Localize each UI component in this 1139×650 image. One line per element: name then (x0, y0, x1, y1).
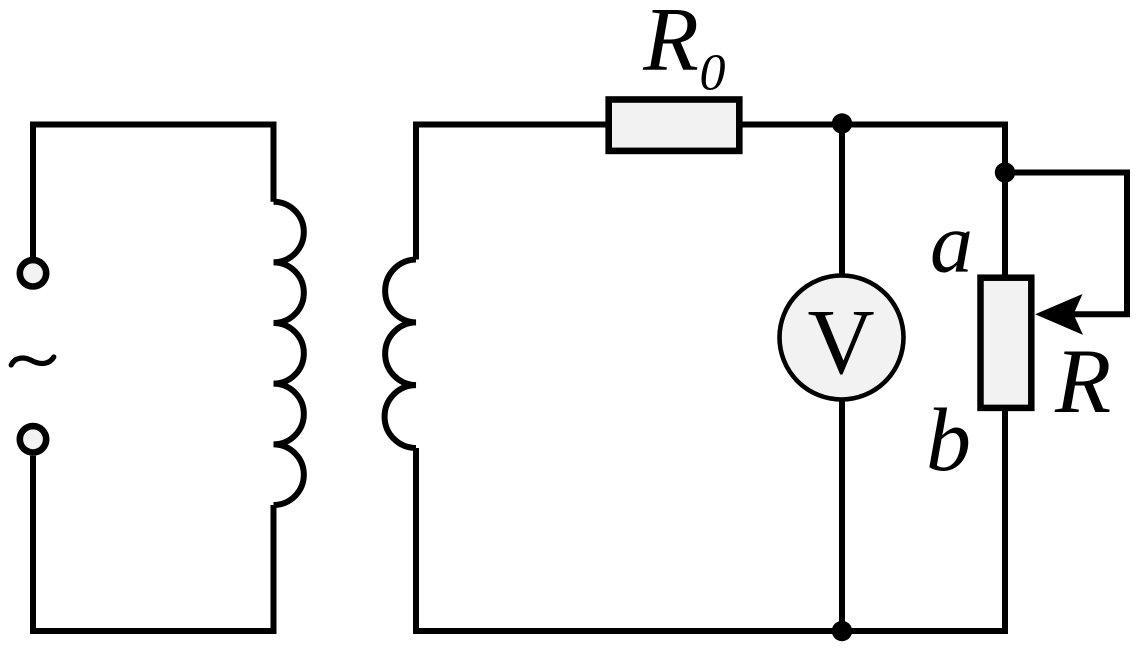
inductor L1 primary winding (5 bumps) (274, 202, 304, 505)
potentiometer R body (981, 278, 1032, 408)
inductor L2 secondary winding (3 bumps) (385, 260, 416, 449)
terminal T1 (AC source upper terminal) (20, 260, 46, 286)
wire wiper loop (node to arrow shaft) (1005, 173, 1127, 315)
node junction dot bottom (voltmeter return) (832, 621, 852, 641)
wire left-loop top (source top to primary coil top) (33, 125, 274, 258)
wire left-loop bottom (source bottom to primary coil bottom) (33, 456, 274, 631)
node junction dot top (voltmeter tap) (832, 113, 852, 133)
resistor R0 body (609, 100, 740, 151)
wire voltmeter branch upper (839, 125, 845, 275)
svg-text:b: b (926, 391, 971, 490)
svg-text:R: R (1054, 330, 1111, 432)
wire right-loop top (secondary top to right rail) (416, 125, 1005, 278)
AC source tilde symbol (11, 357, 54, 365)
node junction dot right rail (wiper tap) (995, 162, 1015, 182)
wire voltmeter branch lower (839, 401, 845, 631)
svg-text:V: V (808, 291, 875, 394)
svg-text:a: a (930, 194, 973, 290)
svg-text:0: 0 (700, 45, 726, 102)
wiper arrowhead (1035, 294, 1083, 335)
terminal T2 (AC source lower terminal) (20, 426, 46, 452)
voltmeter V body (780, 276, 904, 400)
svg-text:R: R (642, 0, 699, 89)
wire right-loop bottom (secondary bottom to right rail) (416, 409, 1005, 631)
